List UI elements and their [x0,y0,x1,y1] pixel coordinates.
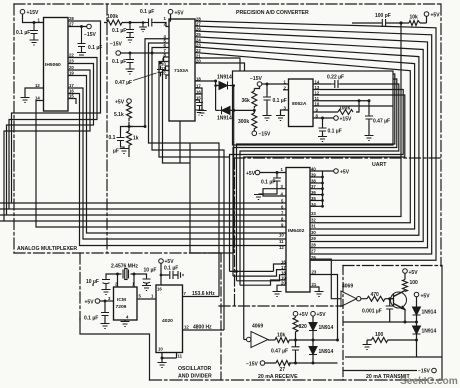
dashed divider analog mux / A-D [106,4,108,253]
wire 4020 pin 7 clock out [183,296,220,298]
terminal +5V transmit diodes [414,292,419,297]
svg-text:36k: 36k [242,98,251,104]
svg-text:153.6 kHz: 153.6 kHz [192,291,215,297]
svg-text:20: 20 [69,65,74,70]
wire receive 4069 output to 10k [268,339,275,341]
svg-text:0.1 µF: 0.1 µF [261,180,275,186]
UART box left border [234,158,236,306]
wire mux select bus line 6 (pin 19) [68,76,286,234]
wire 7103A bottom pin down to y253 run [180,121,234,253]
wire 8052A diode rail to UART region [233,110,235,253]
svg-text:+5V: +5V [317,312,327,318]
svg-text:IH5060: IH5060 [45,62,61,68]
svg-text:13: 13 [315,85,320,90]
svg-text:−15V: −15V [110,42,122,48]
dashed mux bottom and oscillator top border [14,252,221,254]
control line 8052A out A [237,74,395,281]
capacitor 0.1uF at 1k node [117,133,125,148]
svg-text:12: 12 [161,71,166,76]
terminal -15V 7103A [116,51,121,56]
svg-text:29: 29 [311,236,316,241]
control line 8052A pin 12 [244,95,405,340]
junction dots [33,21,36,24]
svg-text:37: 37 [311,184,316,189]
wire IH5060 pin 27 to -15V [68,26,87,28]
svg-text:40: 40 [311,167,316,172]
svg-text:0.1 µF: 0.1 µF [112,28,126,34]
svg-text:11: 11 [315,96,320,101]
ground cap at +15V [30,40,39,45]
wire emitter row [343,321,417,323]
diode 1N914 transmit upper [413,307,421,315]
control line 8052A pin 14 via 0.22uF [240,84,399,285]
svg-text:27: 27 [311,249,316,254]
svg-text:23: 23 [196,43,201,48]
svg-text:31: 31 [311,224,316,229]
wire UART pin 39 stub [310,176,323,178]
svg-text:100k: 100k [107,14,118,20]
capacitor 0.22uF series [331,80,340,88]
oscillator box left border [79,253,81,320]
svg-text:100k: 100k [339,106,350,112]
svg-text:2.4576 MHz: 2.4576 MHz [111,264,138,270]
svg-text:26: 26 [311,255,316,260]
svg-text:5.1k: 5.1k [114,112,124,118]
svg-text:0.1 µF: 0.1 µF [84,316,98,322]
terminal +5V 7103A [168,9,173,14]
svg-text:12: 12 [315,91,320,96]
svg-text:27: 27 [280,367,286,373]
IC IH5060 analog multiplexer [44,18,69,112]
wire 7103A pins 16 17 to ground column [195,88,202,110]
svg-text:+5V: +5V [299,312,309,318]
wire diode pair lower left lead [216,109,219,111]
wire ICM7209 ground [124,320,126,322]
capacitor 10uF crystal right [143,277,151,286]
svg-text:+5V: +5V [246,171,256,177]
wire IH5060 pin 15 stub [68,99,76,105]
terminal -15V 8052A bottom [252,131,257,136]
wire 300k bottom to -15V [253,130,255,131]
wire UART pin 36 stub [310,194,323,196]
wire 100pF 10k +5V line [352,16,427,23]
resistor 470 [367,296,385,301]
svg-text:18: 18 [196,77,201,82]
svg-text:20 mA RECEIVE: 20 mA RECEIVE [258,374,298,380]
svg-text:0.1 µF: 0.1 µF [16,30,30,36]
svg-text:1N914: 1N914 [217,116,232,122]
wire 4020 pins 10 11 to ground [162,353,177,363]
svg-text:1N914: 1N914 [422,310,437,316]
svg-text:20: 20 [196,59,201,64]
svg-text:10: 10 [158,347,163,352]
wire 100 ohm to ground leg [367,340,417,344]
ADC data bus line 6 (7103A pin 23) [195,47,415,229]
ground UART 0.1uF [254,195,263,200]
dashed frame top border [14,3,441,5]
wire 0.1uF branch at 1k node [121,127,130,134]
ground 0.1uF ICM [101,324,110,329]
svg-text:28: 28 [311,243,316,248]
svg-text:−15V: −15V [246,362,258,368]
terminal +5V ICM [95,299,100,304]
svg-text:12: 12 [35,83,40,88]
ground 8052A pin 3 [276,116,285,121]
wire 8052A pin 8 to +15V and 0.1uF [313,118,334,136]
svg-text:IM6402: IM6402 [288,228,305,234]
capacitor 0.1uF at +15V 8052A [319,126,327,134]
svg-text:0.47 µF: 0.47 µF [271,349,288,355]
wire -15V to 7103A pin 7 [121,52,170,54]
ground 0.1uF at 100k node [126,23,134,43]
terminal -15V receive [260,361,265,366]
svg-text:23: 23 [312,270,317,275]
transistor Q1 NPN [391,291,407,310]
capacitor 0.1uF at 7103A -15V [126,53,134,69]
svg-text:0.1 µF: 0.1 µF [328,129,342,135]
diode 1N914 transmit lower [413,326,421,334]
inverter 4069 transmit [341,291,361,307]
resistor 300k [252,113,257,131]
ADC data bus line 8 (100pF comparator) [310,23,401,217]
resistor 10k receive [275,338,289,343]
svg-text:11: 11 [178,354,183,359]
capacitor 0.1uF series 7103A input [146,19,154,27]
ground cap at 1k node [120,149,129,154]
svg-text:1k: 1k [133,136,139,142]
svg-text:14: 14 [35,96,40,101]
terminal +5V top right [424,12,429,17]
wire transmit loop bottom [345,356,442,358]
resistor 100k (8052A pin 9) [338,110,353,115]
svg-text:0.1: 0.1 [109,135,116,141]
svg-text:10: 10 [315,102,320,107]
IC IM6402 UART [286,168,310,293]
wire 7103A pin 4 to 5.1k/1k node [130,39,170,127]
svg-text:1N914: 1N914 [422,329,437,335]
svg-text:UART: UART [372,162,387,168]
wire UART nest pin 17 [233,270,286,277]
capacitor 0.001uF transmit [386,304,394,312]
svg-text:0.1 µF: 0.1 µF [88,45,102,51]
wire 0.1uF series to side ground [161,274,178,276]
UART box top border [234,157,441,159]
terminal +15V 8052A [334,116,339,121]
capacitor 0.47uF near 7103A pins [157,66,164,77]
svg-text:100: 100 [410,280,419,286]
wire UART pins 39-34 tie column [322,171,324,206]
wire mux select bus line 3 (pin 23) [0,64,286,216]
ground cap 7103A pin 15 [195,110,204,115]
wire 7103A pin 10 stub [166,66,170,70]
crystal 2.4576 MHz [123,269,129,280]
wire +5V to 4020 pin 16 [160,263,162,285]
resistor 27 [276,361,290,366]
svg-text:+5V: +5V [409,270,419,276]
wire UART 0.1uF decoupling to ground [259,173,278,195]
leader line 0.47uF [133,73,157,81]
wire +15V to IH5060 pin 1 [23,14,44,23]
terminal +5V 5.1k [127,99,132,104]
svg-text:+5V: +5V [175,11,185,17]
svg-text:+5V: +5V [340,170,350,176]
terminal -15V 8052A top [257,82,262,87]
wire diode pair right rail [230,86,254,111]
svg-text:0.1 µF: 0.1 µF [112,59,126,65]
wire UART pin 35 stub [310,200,323,202]
svg-text:20: 20 [281,281,286,286]
wire 8052A pin 3 to ground [281,110,289,115]
transmit box right border [441,266,443,381]
resistor 100 transmit ground [372,338,388,343]
svg-text:100: 100 [375,332,384,338]
wire 0.1uF ICM decoupling [104,301,106,323]
svg-text:12: 12 [184,325,189,330]
wire 4020 pin 12 4800 Hz [183,329,225,331]
IC 4020 divider [156,285,183,353]
wire 7103A pin 9 nest [159,62,230,158]
capacitor at 7103A pin 15 [196,100,203,110]
terminal +5V 4020 [159,259,164,264]
svg-text:1N914: 1N914 [217,75,232,81]
svg-text:33: 33 [311,211,316,216]
capacitor 0.1uF series 4020 supply [169,271,175,279]
ADC data bus line 3 (7103A pin 26) [195,31,428,248]
svg-text:39: 39 [311,173,316,178]
wire UART left column nest pin 16 [274,264,287,271]
oscillator box right border [220,253,222,380]
svg-text:OSCILLATOR: OSCILLATOR [178,366,211,372]
ground 0.47uF 8052A [365,136,374,141]
svg-text:−15V: −15V [418,369,430,375]
capacitor 0.1uF UART +5V [273,176,281,184]
wire 7103A pin 8 stub [164,57,170,62]
terminal +5V UART left [255,170,260,175]
terminal +15V mux [20,9,25,14]
wire +5V 5.1k 1k chain [129,103,133,157]
svg-text:4069: 4069 [342,284,353,290]
resistor 1k [127,131,132,147]
wire crystal left node [106,274,122,287]
svg-text:PRECISION A/D CONVERTER: PRECISION A/D CONVERTER [236,10,309,16]
capacitor 10uF crystal left [102,277,110,289]
wire mux select bus line 4 (pin 20) [0,70,286,221]
svg-text:34: 34 [311,202,316,207]
svg-text:1N914: 1N914 [319,325,334,331]
wire transmit -15V row [343,370,417,372]
ground 10uF right [142,286,151,291]
capacitor 0.1uF at IH5060 -15V [78,27,86,53]
terminal -15V transmit [432,368,437,373]
capacitor 0.47uF receive [292,345,300,352]
IC ICM7209 oscillator [114,287,138,320]
wire UART pin 20 to ground [277,285,286,291]
svg-text:+5V: +5V [115,100,125,106]
capacitor 0.1uF at 8052A -15V [263,95,271,102]
wire 7103A pin 20 into integrator box [195,63,245,71]
svg-text:0.47 µF: 0.47 µF [115,80,132,86]
svg-text:17: 17 [281,265,286,270]
ground 0.1uF 8052A -15V [263,116,272,121]
wire +5V to 7103A pin 1 [169,14,171,21]
svg-text:30: 30 [311,230,316,235]
svg-text:10k: 10k [277,333,286,339]
inverter 4069 receive [247,332,269,348]
wire UART pin 34 stub [310,205,323,207]
svg-text:4800 Hz: 4800 Hz [193,325,212,331]
svg-text:ANALOG MULTIPLEXER: ANALOG MULTIPLEXER [17,246,77,252]
wire UART nest pin 19 [240,280,286,285]
wire crystal right node [131,274,147,287]
resistor 5.1k [127,104,132,121]
wire receive diode column [312,316,314,363]
ground ICM7209 pin 4 [121,322,130,327]
wire 100k input line to 7103A pin 2 [104,23,169,27]
ground cap at IH -15V [77,53,86,58]
svg-text:4020: 4020 [162,318,173,324]
ground 7103A pins 16 17 [198,111,207,116]
ground drop at 7103A input cap [139,23,147,32]
svg-text:22: 22 [196,48,201,53]
capacitor 0.47uF 8052A [365,114,373,121]
svg-text:11: 11 [279,239,284,244]
op-amp U 8052A [289,79,314,127]
resistor 10k (top right) [409,21,420,26]
ground 10uF left [102,290,111,295]
wire +5V to ICM7209 pin 3 [100,300,114,302]
dashed frame left border [13,4,15,253]
svg-text:0.1 µF: 0.1 µF [140,9,154,15]
svg-text:21: 21 [312,282,317,287]
wire IH5060 pin 12 to ground [25,88,44,97]
ground cap at 7103A -15V [126,69,135,74]
svg-text:470: 470 [371,292,380,298]
svg-text:26: 26 [196,27,201,32]
svg-text:27: 27 [69,22,74,27]
svg-text:10 µF: 10 µF [144,268,157,274]
svg-text:−15V: −15V [259,132,271,138]
diode 1N914 receive lower [309,347,317,355]
ground sideways 4020 supply cap [178,271,183,279]
wire 10uF left cap to ground [92,284,94,287]
svg-text:15: 15 [69,94,74,99]
ground transmit 100 ohm [363,345,372,350]
wire transmit diode column [416,297,418,357]
svg-text:0.47 µF: 0.47 µF [373,119,390,125]
wire 10k to diode node [289,339,338,341]
wire 7103A pin 21 into integrator box [195,58,240,71]
svg-text:28: 28 [69,16,74,21]
svg-text:32: 32 [311,218,316,223]
svg-text:100 pF: 100 pF [375,13,391,19]
svg-text:0.001 µF: 0.001 µF [362,309,382,315]
wire 8052A pin 9 via 100k [313,101,359,112]
resistor 820 [293,318,298,335]
svg-text:23: 23 [69,59,74,64]
capacitor 100pF series [381,19,386,27]
wire UART pins 3 4 grounded [263,189,286,196]
wire 36k to 300k junction [253,109,255,113]
wire UART pin 37 stub [310,188,323,190]
svg-text:SeekIC.com: SeekIC.com [400,376,458,387]
bottom border [150,379,443,381]
svg-text:AND DIVIDER: AND DIVIDER [178,374,212,380]
wire -15V 27 ohm return [265,362,338,364]
svg-text:14: 14 [315,80,320,85]
wire ICM7209 pin 5 to 4020 pin 1 [137,298,156,300]
svg-text:25: 25 [196,32,201,37]
terminal +5V 820 [293,311,298,316]
svg-text:8052A: 8052A [292,101,307,107]
svg-text:0.1 µF: 0.1 µF [164,266,178,272]
8052A section solid enclosure box [233,71,394,145]
terminal -15V mux [87,24,92,29]
svg-text:10 µF: 10 µF [86,279,99,285]
ADC data bus line 1 (7103A pin 28) [195,21,436,260]
svg-text:19: 19 [69,71,74,76]
wire 10uF right cap to ground [146,284,148,286]
svg-text:16: 16 [157,287,162,292]
svg-text:15: 15 [196,96,201,101]
ground 0.1uF +15V 8052A [318,137,327,142]
wire 8052A pin 2 stub [283,89,289,91]
svg-text:0.22 µF: 0.22 µF [327,75,344,81]
terminal +5V UART right [334,169,339,174]
ADC data bus line 4 (7103A pin 25) [195,37,423,242]
capacitor 0.1uF ICM7209 [101,310,109,318]
svg-text:10: 10 [279,233,284,238]
wire mux select bus line 1 (pin 28) [0,21,286,203]
IC 7103A ADC [169,19,195,121]
svg-text:7103A: 7103A [174,68,189,74]
wire UART pin 1 +5V [260,172,286,174]
svg-text:36: 36 [311,190,316,195]
ground UART pin 21 [315,292,324,297]
svg-text:+15V: +15V [340,117,352,123]
svg-text:17: 17 [196,84,201,89]
svg-text:ICM: ICM [117,297,126,303]
diode 1N914 receive upper [309,323,317,331]
svg-text:12: 12 [279,245,284,250]
wire 8052A pin 10 stub [313,105,393,107]
control line 8052A out B [233,79,397,276]
wire UART nest pin 18 [237,275,287,281]
diode 1N914 lower (points left) [219,106,230,114]
wire 8052A -15V top rail [254,84,288,91]
svg-text:22: 22 [69,53,74,58]
svg-text:1N914: 1N914 [319,349,334,355]
capacitor 0.1uF at +15V [30,23,38,41]
wire 0.1uF at -15V rail [266,84,268,115]
svg-text:+5V: +5V [165,259,175,265]
wire mux select bus line 2 (pin 22) [0,58,286,210]
svg-text:820: 820 [299,324,308,330]
terminal +5V receive diodes [311,311,316,316]
svg-text:7209: 7209 [116,304,127,310]
wire 0.001uF cap leads [389,299,391,322]
svg-text:38: 38 [311,179,316,184]
control line 8052A pin 13 [230,90,404,272]
wire mux select bus line 8 (pin 16) [68,94,286,246]
svg-text:10k: 10k [410,15,419,21]
svg-text:−15V: −15V [84,32,96,38]
svg-text:16: 16 [281,260,286,265]
diode 1N914 upper (points right) [219,82,230,90]
ADC data bus line 2 (7103A pin 27) [195,26,432,254]
ground UART pin 20 [273,292,282,297]
resistor 36k [252,91,257,109]
wire transmit 470 to base [361,298,391,300]
